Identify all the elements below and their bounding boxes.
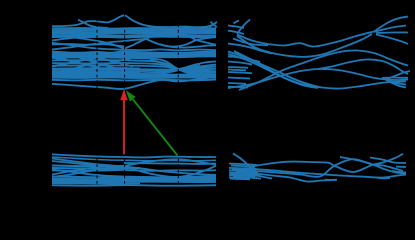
TR cl 9 [228,87,248,88]
TL top xarm [78,20,108,28]
TL c5 [196,40,216,45]
BR dash 3 [392,171,406,173]
BR cl 4 [229,174,257,177]
k-line x=97 [96,13,98,190]
TR low fan 4 [388,81,406,88]
TL s4 [52,56,216,57]
BL lens upper [124,159,216,166]
TL c6 [196,37,216,40]
TL fan 1 [52,57,216,76]
TL b1b [52,32,216,35]
TL fan 4 [52,66,216,72]
BL desc 1 [52,159,124,167]
TR ledge [228,44,272,54]
TR cl 8 [228,62,252,65]
BL lens int2 [124,167,216,175]
TR cl 2 [228,72,252,73]
TR fan t4 [376,35,408,45]
BR k6 [230,178,250,181]
TL s1 [52,52,216,53]
TL c r1 [52,37,130,41]
red arrow head [120,89,127,100]
BR cl 3 [229,172,256,175]
green arrow head [126,90,136,101]
TL c8 [124,48,216,51]
TL stripe t2 [52,29,216,32]
TR X arm [237,20,250,34]
BR band 6 [340,157,406,174]
TL lat 3 [97,58,133,67]
TL s2 [52,53,216,54]
BL cross dn [52,170,216,178]
TR low fan 2 [386,80,406,85]
BL m2 [52,166,124,167]
TL c v [124,39,146,49]
TL stripe t1 [52,27,216,30]
TR rise 1 [239,50,408,90]
BL lens lower [124,166,216,177]
TL diag 1 [52,52,124,70]
k-line x=178 [177,13,179,190]
BL lens int1 [124,162,216,165]
TL lens lower [146,39,196,47]
BR cl 1 [229,167,255,170]
BR band 7 [370,158,406,164]
TL lat 2 [52,58,97,67]
BR k1 [231,166,252,167]
BL line 2 [52,157,216,161]
BL dense 1 [52,178,216,181]
TL lat 4 [97,58,133,67]
BL mid long [52,169,216,172]
BR dash 2 [378,177,390,179]
TR lens low [318,59,408,74]
TL low 2 [52,79,216,82]
TR cl 6 [228,31,244,35]
TL fill 2 [52,71,140,74]
TR cl 4 [228,82,246,85]
TL c d1 [52,35,124,49]
BR end 1 [396,166,406,169]
BR cl 2 [229,169,256,172]
TR cl 10 [228,69,246,72]
TL fan 10 [156,64,200,72]
k-line x=124 (drawn under arrows) [124,13,126,190]
TL top rx2 [209,22,217,27]
BL top line [52,154,216,157]
TL c d2 [52,43,124,50]
TL fan 2 [52,60,216,75]
BR dash 1 [325,179,337,181]
TL fan 7 [52,67,216,72]
green arrow: indirect-gap transition shaft [133,99,178,155]
TL fan 9 [150,60,200,74]
TL diag 3 [52,53,124,75]
TL fan 8 [52,69,216,70]
BR k3 [230,174,260,176]
TL top rx1 [211,22,217,28]
TR desc 1 [228,52,406,89]
TL bt2 [52,75,216,77]
BR k4 [236,171,258,174]
BL rise 1 [52,166,124,175]
TR desc 2 [234,51,312,87]
BL dense 2 [52,179,216,182]
TR return [237,34,372,57]
TL bt1 [52,73,216,75]
TL b2a [52,34,216,37]
TL c9 [52,44,124,46]
TL top main [52,15,217,27]
BL dense 3 [52,181,216,184]
TL b1a [52,30,216,33]
TL c7 [160,44,216,47]
TR cl 1 [228,66,248,69]
BL thin [52,182,140,185]
TL s3 [52,55,216,56]
TR dash tl [234,21,240,24]
TL lens upper [146,33,196,40]
TR low fan 3 [382,77,408,80]
BR k5 [248,174,272,179]
TL low 1 [52,76,216,79]
BR band 2 [252,154,403,172]
BR k2 [232,168,256,171]
TL fan 6 [52,65,216,75]
TL fan 3 [52,63,216,73]
BL desc 2 [52,161,124,167]
BL m3 [52,167,140,170]
BR band 3 [255,159,403,177]
BR band 1 [233,154,258,173]
TR wave mid [237,32,374,47]
BL bottom [52,184,216,187]
TR fan t1 [374,17,408,32]
TL fill 1 [52,67,140,69]
BR cl 5 [229,176,255,178]
BL rise 2 [52,167,124,177]
TL fan 5 [52,61,216,76]
TL bt3 [52,76,216,78]
TR fan t3 [376,31,408,34]
TL lat 1 [52,58,97,67]
red arrow: direct-gap transition shaft [123,100,125,155]
TR desc 3 [228,54,318,88]
BL pre [52,177,216,178]
BR band 4 [256,174,336,182]
BR k7 [233,177,261,179]
TR leaf [233,39,268,46]
TL envelope [52,77,216,89]
TR cl 7 [228,57,260,63]
TR cl 3 [228,77,250,80]
BR k0 [229,164,258,166]
TL c r2 [52,39,146,50]
BR band 5 [255,169,406,178]
TL b2b [52,36,216,39]
TR fan t2 [374,26,406,32]
TL diag 4 [52,56,105,67]
TR low fan 1 [386,71,410,80]
TL diag 2 [52,56,110,70]
TR rise 2 [228,69,408,88]
TR cl 5 [228,26,244,29]
